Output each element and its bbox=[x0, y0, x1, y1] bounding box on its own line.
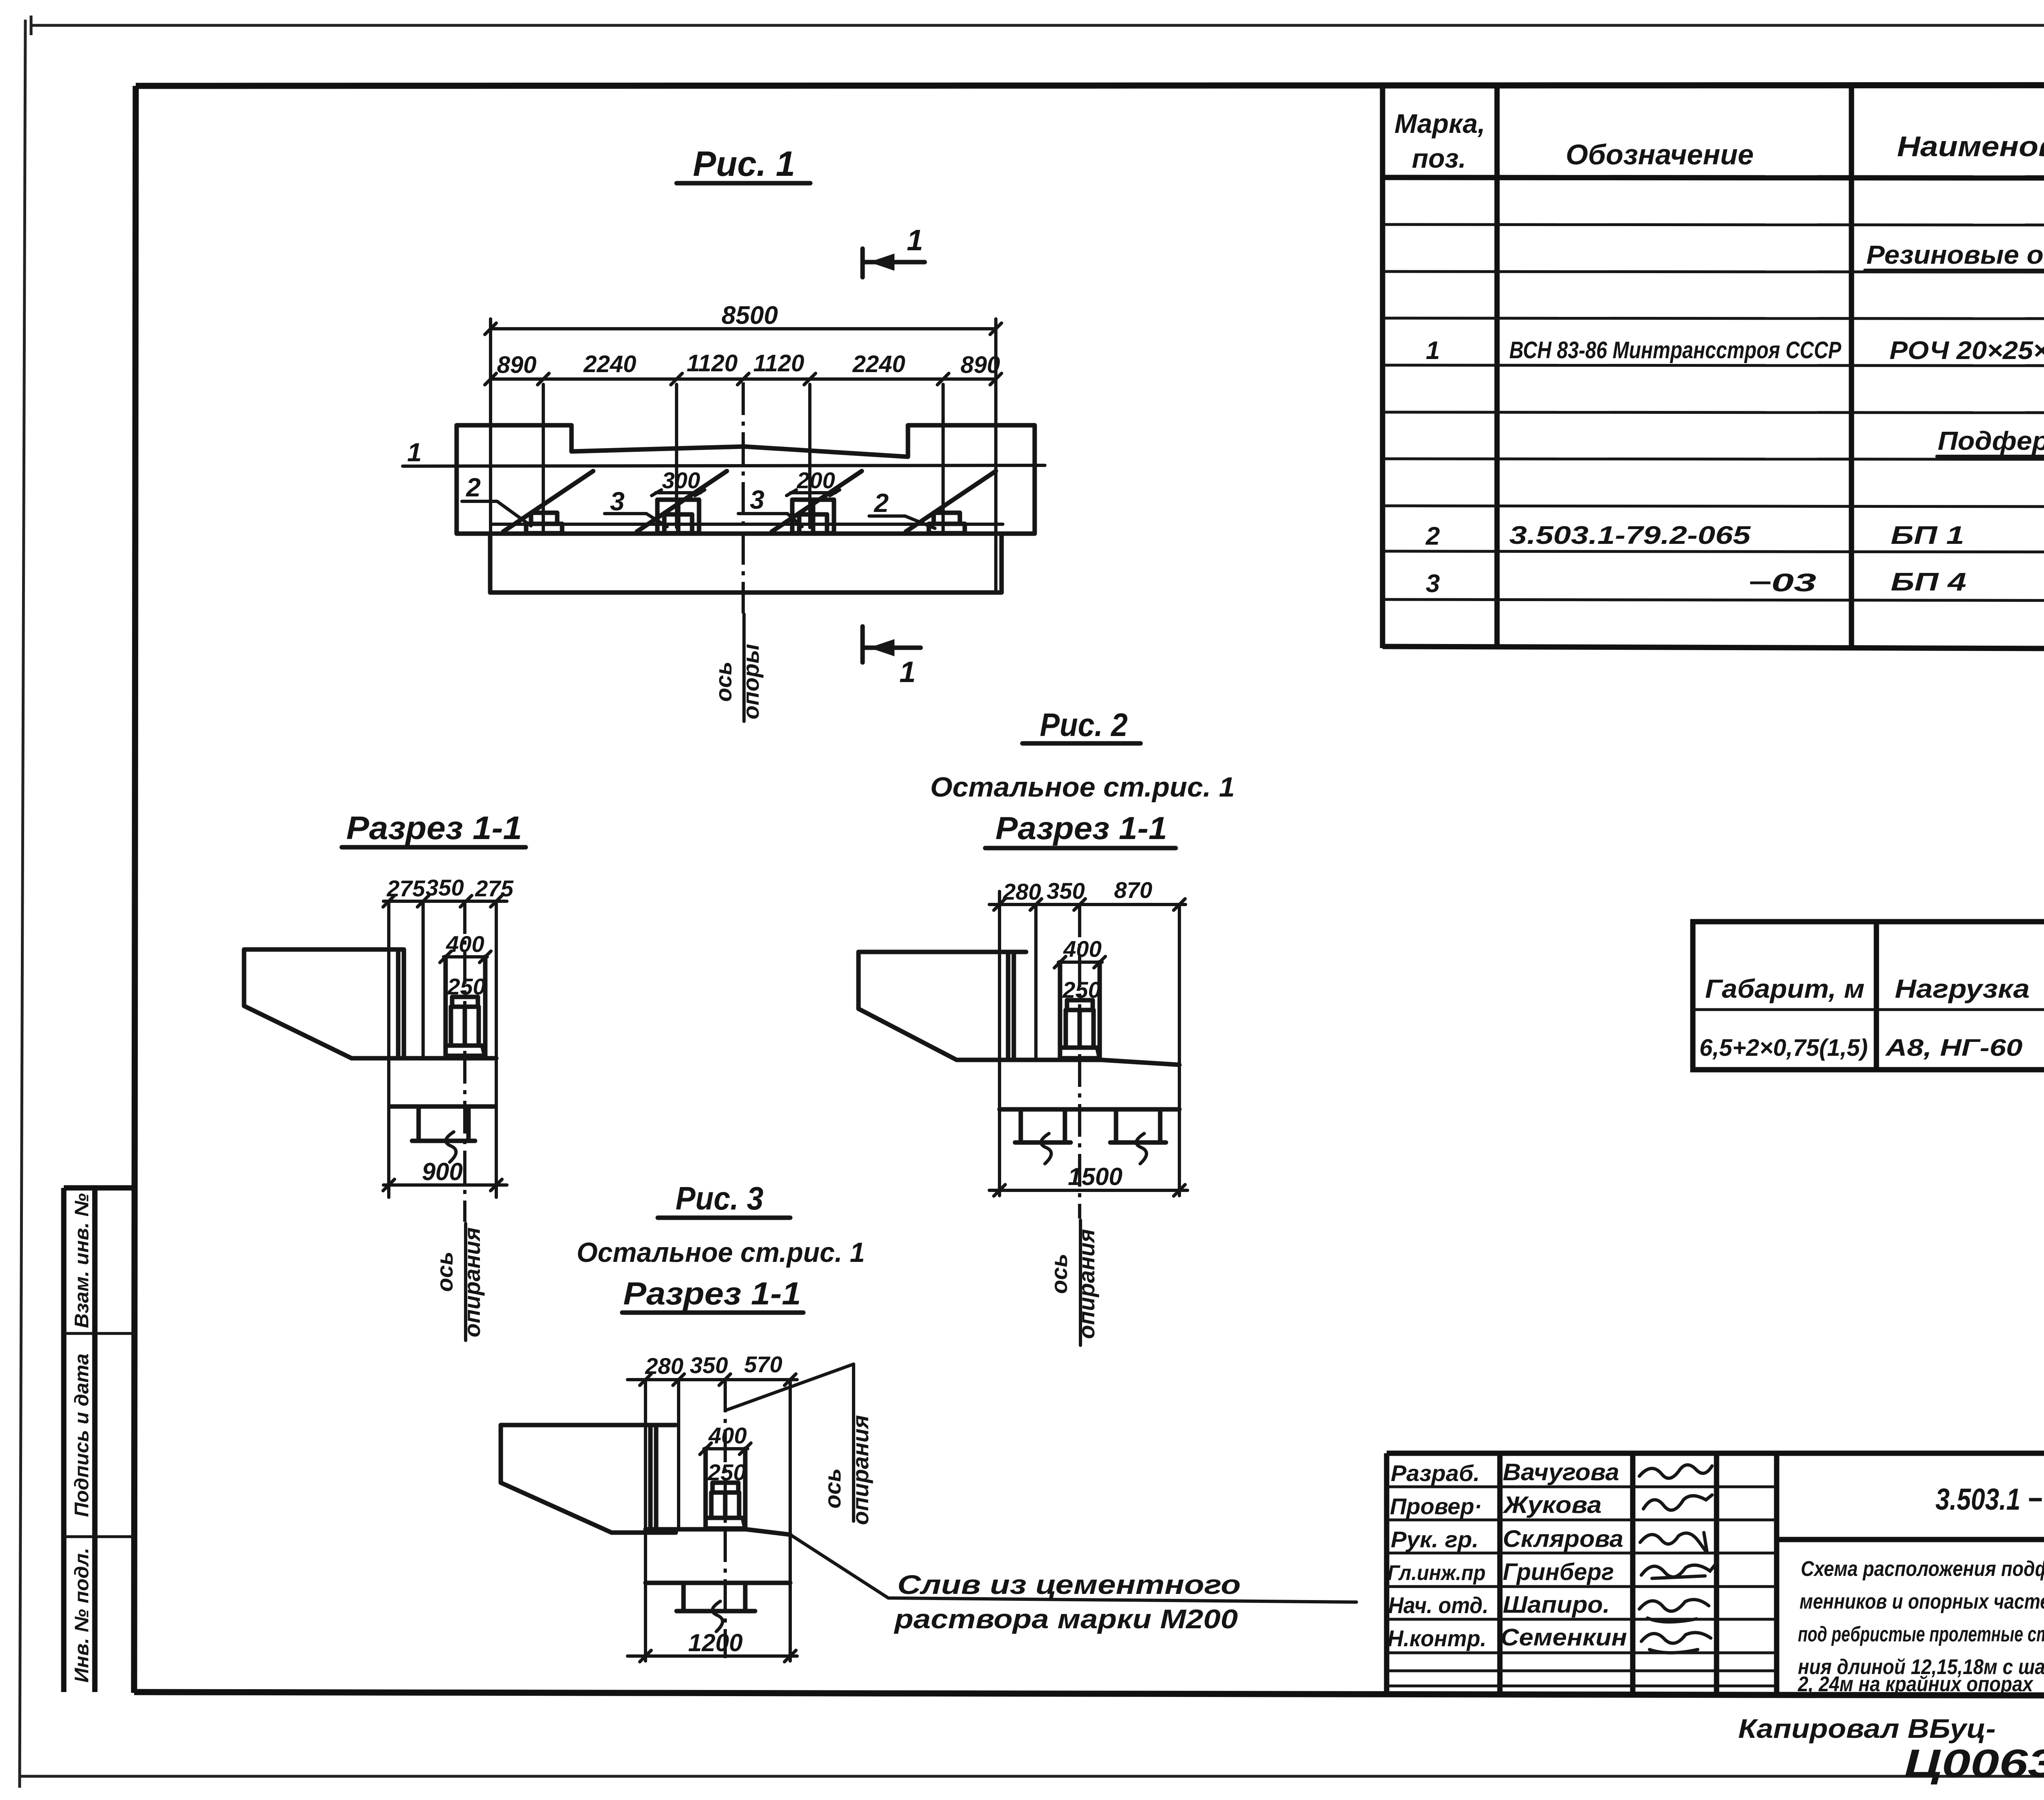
svg-text:Габарит, м: Габарит, м bbox=[1705, 974, 1865, 1003]
pile bbox=[681, 1583, 686, 1611]
svg-text:менников и опорных частей: менников и опорных частей bbox=[1800, 1590, 2044, 1614]
svg-text:Рук. гр.: Рук. гр. bbox=[1391, 1526, 1479, 1552]
svg-text:Марка,: Марка, bbox=[1394, 108, 1485, 139]
svg-text:3: 3 bbox=[750, 485, 764, 514]
svg-text:1200: 1200 bbox=[688, 1629, 742, 1656]
svg-text:275: 275 bbox=[475, 875, 513, 901]
girder bbox=[858, 952, 1026, 1060]
svg-text:2240: 2240 bbox=[852, 351, 905, 377]
svg-text:Подферменники: Подферменники bbox=[1938, 426, 2044, 456]
pier cap with drain slope bbox=[645, 1529, 790, 1535]
girder bbox=[244, 949, 404, 1058]
svg-text:2: 2 bbox=[874, 488, 889, 518]
svg-text:200: 200 bbox=[796, 467, 835, 493]
svg-text:Капировал ВБуц-: Капировал ВБуц- bbox=[1738, 1713, 1996, 1744]
drain leader + note bbox=[790, 1535, 1356, 1602]
svg-text:опирания: опирания bbox=[459, 1228, 485, 1338]
svg-text:Склярова: Склярова bbox=[1503, 1526, 1623, 1552]
svg-text:890: 890 bbox=[497, 352, 537, 378]
bearing stack bbox=[444, 957, 448, 1058]
svg-text:280: 280 bbox=[1002, 879, 1041, 904]
svg-text:300: 300 bbox=[662, 467, 700, 493]
svg-text:поз.: поз. bbox=[1412, 143, 1466, 173]
svg-text:опоры: опоры bbox=[738, 644, 764, 720]
piles bbox=[1019, 1109, 1023, 1142]
svg-text:Подпись и дата: Подпись и дата bbox=[71, 1353, 93, 1517]
pier cap bbox=[1000, 1060, 1179, 1065]
bearing 4 (pos.2) bbox=[929, 513, 965, 533]
svg-text:ВСН 83-86 Минтрансстроя СССР: ВСН 83-86 Минтрансстроя СССР bbox=[1509, 337, 1841, 364]
svg-text:Слив из цементного: Слив из цементного bbox=[897, 1569, 1241, 1600]
svg-text:1500: 1500 bbox=[1068, 1163, 1122, 1190]
svg-text:Рис. 2: Рис. 2 bbox=[1040, 707, 1128, 743]
svg-text:400: 400 bbox=[708, 1423, 746, 1448]
signatures squiggles bbox=[1639, 1465, 1712, 1478]
svg-text:опирания: опирания bbox=[847, 1415, 873, 1525]
svg-text:Разраб.: Разраб. bbox=[1391, 1460, 1480, 1486]
svg-text:БП 4: БП 4 bbox=[1891, 568, 1966, 596]
svg-text:3.503.1-79.2-065: 3.503.1-79.2-065 bbox=[1509, 521, 1751, 550]
girder bbox=[501, 1425, 676, 1533]
svg-text:2: 2 bbox=[1425, 522, 1440, 550]
svg-text:350: 350 bbox=[426, 875, 464, 900]
svg-text:1120: 1120 bbox=[687, 350, 738, 377]
center axis bbox=[742, 382, 745, 613]
svg-text:Гринберг: Гринберг bbox=[1503, 1559, 1614, 1585]
svg-text:1: 1 bbox=[1426, 337, 1440, 365]
svg-text:3: 3 bbox=[1426, 570, 1440, 598]
section mark bottom bbox=[863, 626, 921, 689]
svg-text:опирания: опирания bbox=[1074, 1229, 1099, 1339]
svg-text:1: 1 bbox=[407, 438, 422, 467]
svg-text:РОЧ 20×25×6,2-0,8: РОЧ 20×25×6,2-0,8 bbox=[1889, 337, 2044, 365]
leader to axis label bbox=[727, 1364, 854, 1410]
svg-text:870: 870 bbox=[1114, 877, 1152, 903]
svg-text:Разрез 1-1: Разрез 1-1 bbox=[623, 1275, 801, 1311]
svg-text:350: 350 bbox=[1047, 878, 1085, 904]
svg-text:1: 1 bbox=[907, 224, 923, 257]
svg-text:8500: 8500 bbox=[722, 301, 778, 330]
svg-text:Гл.инж.пр: Гл.инж.пр bbox=[1387, 1561, 1486, 1585]
pile bbox=[417, 1106, 421, 1141]
svg-text:под ребристые пролетные строе-: под ребристые пролетные строе- bbox=[1798, 1623, 2044, 1646]
svg-text:ось: ось bbox=[432, 1252, 457, 1292]
bearing 2 (pos.3, БП4) bbox=[657, 500, 699, 533]
bearing 1 (pos.2) bbox=[526, 513, 562, 533]
svg-text:Наименование: Наименование bbox=[1897, 130, 2044, 162]
svg-text:А8, НГ-60: А8, НГ-60 bbox=[1885, 1035, 2023, 1061]
svg-text:Нагрузка: Нагрузка bbox=[1895, 974, 2030, 1003]
svg-text:2240: 2240 bbox=[583, 351, 636, 377]
svg-text:Резиновые опорные части: Резиновые опорные части bbox=[1867, 240, 2044, 269]
svg-text:Инв. № подл.: Инв. № подл. bbox=[71, 1548, 93, 1683]
extension / edge verticals bbox=[387, 901, 390, 1197]
svg-text:2, 24м на крайних опорах: 2, 24м на крайних опорах bbox=[1797, 1672, 2034, 1696]
pier cap bbox=[389, 1056, 496, 1061]
svg-text:570: 570 bbox=[744, 1351, 782, 1377]
svg-text:900: 900 bbox=[422, 1158, 463, 1185]
svg-text:ось: ось bbox=[710, 662, 736, 702]
svg-text:Провер·: Провер· bbox=[1390, 1493, 1482, 1519]
svg-text:Нач. отд.: Нач. отд. bbox=[1388, 1592, 1488, 1618]
bearing stack bbox=[1058, 962, 1062, 1060]
svg-text:Остальное ст.рис. 1: Остальное ст.рис. 1 bbox=[930, 772, 1235, 803]
section trace line 1-1 bbox=[403, 465, 1045, 466]
svg-text:раствора марки М200: раствора марки М200 bbox=[894, 1604, 1238, 1634]
svg-text:890: 890 bbox=[961, 352, 1000, 378]
axis bbox=[724, 1380, 727, 1658]
section mark top bbox=[863, 224, 925, 277]
svg-text:Жукова: Жукова bbox=[1502, 1492, 1602, 1518]
bearing 3 (pos.3, БП4) bbox=[792, 500, 834, 533]
svg-text:1: 1 bbox=[899, 656, 916, 689]
svg-text:БП 1: БП 1 bbox=[1891, 521, 1964, 550]
svg-text:Схема расположения подфер-: Схема расположения подфер- bbox=[1801, 1557, 2044, 1581]
svg-text:−03: −03 bbox=[1748, 569, 1816, 597]
svg-text:350: 350 bbox=[690, 1352, 728, 1378]
svg-text:Семенкин: Семенкин bbox=[1500, 1624, 1627, 1651]
diagonals bbox=[503, 471, 996, 532]
svg-text:Обозначение: Обозначение bbox=[1566, 139, 1754, 171]
axis bbox=[463, 901, 466, 1222]
corner mark bbox=[30, 16, 33, 35]
bearing seat line bbox=[491, 523, 1003, 526]
axis bbox=[1078, 904, 1081, 1219]
svg-text:Ц00632-02: Ц00632-02 bbox=[1904, 1742, 2044, 1785]
below-frame notes bbox=[1738, 1708, 2044, 1785]
deck band outline bbox=[457, 425, 1035, 534]
svg-text:Н.контр.: Н.контр. bbox=[1387, 1625, 1486, 1651]
svg-text:3.503.1 − 79.1 − 098: 3.503.1 − 79.1 − 098 bbox=[1936, 1482, 2044, 1516]
svg-text:ось: ось bbox=[1046, 1254, 1072, 1294]
svg-text:6,5+2×0,75(1,5): 6,5+2×0,75(1,5) bbox=[1699, 1035, 1868, 1061]
svg-text:Вачугова: Вачугова bbox=[1503, 1459, 1619, 1486]
dim row 890/2240/1120/1120/2240/890 bbox=[491, 377, 996, 381]
extension verticals bbox=[491, 319, 996, 593]
svg-text:400: 400 bbox=[1063, 936, 1101, 962]
svg-text:Разрез 1-1: Разрез 1-1 bbox=[346, 810, 522, 846]
svg-text:1120: 1120 bbox=[753, 350, 805, 377]
bearing stack bbox=[704, 1449, 708, 1529]
svg-text:Остальное ст.рис. 1: Остальное ст.рис. 1 bbox=[577, 1237, 865, 1268]
svg-text:2: 2 bbox=[466, 473, 481, 502]
pier cap outline in plan bbox=[490, 534, 1002, 593]
svg-text:ось: ось bbox=[820, 1468, 845, 1509]
svg-text:Рис. 1: Рис. 1 bbox=[693, 144, 795, 184]
svg-text:Взам. инв. №: Взам. инв. № bbox=[71, 1193, 93, 1328]
svg-text:3: 3 bbox=[610, 487, 625, 516]
svg-text:Разрез 1-1: Разрез 1-1 bbox=[995, 810, 1167, 846]
svg-text:Рис. 3: Рис. 3 bbox=[676, 1180, 764, 1216]
svg-text:Шапиро.: Шапиро. bbox=[1503, 1591, 1610, 1618]
